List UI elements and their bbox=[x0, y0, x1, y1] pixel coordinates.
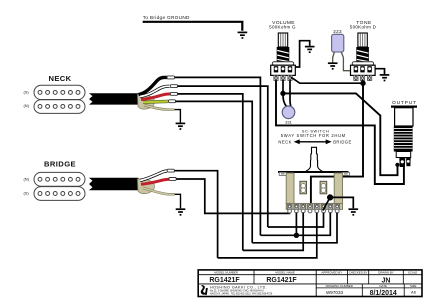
wire neck green thin run bbox=[176, 101, 253, 242]
svg-text:APPROVED BY: APPROVED BY bbox=[321, 271, 342, 275]
wire rail neck green to T8 bbox=[252, 213, 337, 243]
ground bridge bare bbox=[176, 209, 186, 215]
jack output collar bbox=[396, 152, 411, 158]
switch SW spring window 2 bbox=[320, 181, 327, 194]
svg-text:RG1421F: RG1421F bbox=[209, 277, 240, 284]
switch SW right ear bbox=[342, 172, 349, 175]
wire node C to terminal T6 bbox=[323, 199, 330, 211]
wire neck green bbox=[143, 100, 168, 104]
wire neck white bbox=[140, 86, 170, 96]
svg-text:(S): (S) bbox=[24, 89, 30, 94]
svg-text:NECK: NECK bbox=[48, 74, 71, 83]
wire volume lug3 down to capacitor C331 bbox=[289, 81, 292, 107]
wire bridge white bbox=[140, 171, 167, 181]
switch SW spring window 1 bbox=[300, 181, 307, 194]
capacitor C331 disc bbox=[282, 106, 295, 119]
wire rail neck black T2 T7 bbox=[260, 213, 330, 236]
jack output threaded barrel bbox=[394, 126, 413, 152]
svg-text:A6: A6 bbox=[411, 290, 417, 295]
arrow neck-bridge double head bbox=[294, 139, 332, 144]
wire neck white thin run bbox=[178, 86, 268, 227]
switch SW left ear bbox=[279, 172, 286, 175]
wire neck bare bbox=[144, 105, 175, 110]
jack output top plate bbox=[391, 105, 417, 107]
wire volume case to ground bbox=[295, 41, 310, 67]
sheath bridge cable bbox=[138, 179, 155, 194]
capacitor C223 right leg to tone lug1 bbox=[341, 52, 351, 71]
pot volume body bbox=[271, 65, 296, 75]
svg-text:223: 223 bbox=[333, 29, 342, 34]
svg-text:MODEL NUMBER: MODEL NUMBER bbox=[214, 271, 238, 275]
svg-text:(N): (N) bbox=[24, 103, 30, 108]
svg-text:SIZE: SIZE bbox=[410, 284, 416, 288]
svg-text:DRAWING NUMBER: DRAWING NUMBER bbox=[326, 284, 353, 288]
ground bridge-ground-bus bbox=[238, 32, 248, 38]
switch SW body left column bbox=[286, 173, 294, 204]
capacitor C223 left leg bbox=[333, 52, 335, 62]
wire T2 to node D bbox=[295, 213, 297, 236]
switch terminals T1-T8 squares bbox=[287, 204, 339, 209]
wire volume lug1 to jack sleeve bbox=[276, 81, 404, 185]
terminal neck black bbox=[167, 76, 175, 79]
terminal neck red bbox=[170, 92, 177, 95]
svg-text:NAGOYA, JAPAN TEL 052-931-53: NAGOYA, JAPAN TEL 052-931-5321 FAX 052-9… bbox=[210, 293, 273, 296]
node D neck hot junction bbox=[294, 233, 299, 238]
cable bridge pickup bbox=[89, 178, 141, 191]
svg-text:DATE: DATE bbox=[379, 284, 387, 288]
svg-text:W97033: W97033 bbox=[326, 290, 344, 295]
capacitor C223 body bbox=[332, 34, 344, 52]
svg-text:OUTPUT: OUTPUT bbox=[392, 100, 417, 106]
pickup NECK coil S bbox=[34, 85, 85, 99]
switch SW lever bbox=[306, 147, 323, 172]
terminal neck green bbox=[169, 100, 176, 103]
pickup NECK coil N bbox=[34, 100, 85, 114]
svg-text:(N): (N) bbox=[24, 176, 30, 181]
ground tone case bbox=[380, 75, 390, 81]
ground neck bbox=[176, 123, 186, 129]
wire neck red bbox=[141, 94, 170, 100]
switch SW bottom strip bbox=[286, 203, 342, 209]
node C switch ground junction bbox=[327, 194, 333, 200]
wire neck black bbox=[139, 77, 168, 94]
wire rail neck red to T3 bbox=[243, 213, 303, 251]
jack output sleeve lug bbox=[406, 158, 411, 167]
sheath neck cable bbox=[138, 94, 155, 109]
pot volume capstan bar bbox=[272, 62, 293, 65]
switch SW body right column bbox=[334, 173, 342, 204]
ground volume case bbox=[305, 47, 315, 53]
svg-text:To Bridge GROUND: To Bridge GROUND bbox=[143, 15, 190, 20]
terminal bridge white bbox=[167, 169, 174, 172]
wire node A to capacitor C331 bbox=[283, 95, 287, 106]
wire neck black thin run bbox=[175, 77, 261, 235]
pot tone lug tabs 1 2 3 bbox=[354, 75, 372, 80]
pot tone inner lugs bbox=[354, 66, 372, 72]
pot volume lug tabs 1 2 3 bbox=[274, 75, 292, 80]
ground capacitor C223 bbox=[328, 63, 338, 69]
svg-text:DRAWN BY: DRAWN BY bbox=[378, 271, 394, 275]
wire bridge red bbox=[141, 179, 169, 184]
jack solder blob hot bbox=[395, 163, 399, 167]
wire tone lug2 stub bbox=[362, 81, 364, 83]
svg-text:MODEL NAME: MODEL NAME bbox=[275, 271, 294, 275]
cable neck pickup bbox=[89, 93, 141, 104]
svg-text:NECK: NECK bbox=[278, 139, 291, 144]
svg-text:RG1421F: RG1421F bbox=[266, 277, 297, 284]
pickup BRIDGE coil S bbox=[34, 187, 85, 201]
svg-text:5WAY SWITCH FOR 2HUM: 5WAY SWITCH FOR 2HUM bbox=[281, 133, 346, 138]
jack output tip lug bbox=[399, 158, 405, 168]
svg-text:331: 331 bbox=[285, 119, 292, 124]
node A volume lug2 junction bbox=[280, 91, 285, 96]
switch solder lugs row bbox=[288, 209, 339, 213]
pot tone body bbox=[351, 65, 376, 75]
svg-text:CHECKED BY: CHECKED BY bbox=[349, 271, 368, 275]
svg-text:BRIDGE: BRIDGE bbox=[333, 139, 351, 144]
terminal neck white bbox=[170, 85, 177, 88]
wire bridge red thin run to switch T1 bbox=[176, 179, 289, 213]
wire neck red thin run bbox=[178, 94, 243, 251]
wire neck bare to ground bbox=[175, 110, 181, 123]
wire volume lug2 to node A bbox=[282, 81, 284, 93]
switch SW mounting plate bbox=[278, 171, 349, 173]
svg-text:BRIDGE: BRIDGE bbox=[44, 160, 76, 169]
pot tone shaft bbox=[358, 33, 367, 47]
node B tone lug2 junction bbox=[360, 81, 365, 86]
wire node A to output jack tip (hot) bbox=[285, 93, 398, 175]
wire bridge bare bbox=[143, 188, 175, 195]
wire bridge white thin run bbox=[175, 171, 218, 258]
pot volume knurl bbox=[277, 47, 290, 62]
pot tone knurl bbox=[356, 47, 369, 62]
pot volume shaft bbox=[278, 33, 287, 47]
ground switch bbox=[349, 209, 359, 215]
wire rail neck white to T6 bbox=[268, 213, 324, 228]
wire bridge bare to ground bbox=[175, 194, 181, 208]
svg-text:500Kohm D: 500Kohm D bbox=[350, 24, 377, 29]
jack output body bbox=[395, 108, 413, 126]
wire node C to switch ground bbox=[332, 197, 353, 208]
svg-text:(S): (S) bbox=[24, 191, 30, 196]
pot tone capstan bar bbox=[352, 62, 373, 65]
title block frame bbox=[198, 270, 422, 297]
wire tone case to ground bbox=[375, 69, 385, 74]
svg-text:8/1/2014: 8/1/2014 bbox=[370, 290, 397, 297]
wire node B to switch terminal T4 bbox=[311, 85, 363, 205]
terminal bridge red bbox=[169, 178, 176, 181]
pickup BRIDGE coil N bbox=[34, 172, 85, 186]
wire bridge ground bus bbox=[143, 22, 243, 31]
logo Hoshino mark bbox=[201, 285, 208, 295]
svg-text:500Kohm G: 500Kohm G bbox=[269, 24, 296, 29]
wire volume lug3 to tone node B bbox=[291, 77, 362, 83]
wire rail bridge white to T5 bbox=[218, 213, 317, 258]
pot volume inner lugs bbox=[274, 66, 292, 72]
svg-text:SCALE: SCALE bbox=[408, 271, 418, 275]
